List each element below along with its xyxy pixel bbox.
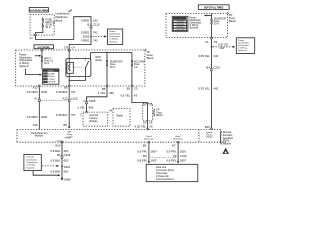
svg-text:C346: C346 [64,153,71,157]
dotted tie between DLC wires [150,157,177,159]
svg-text:30 A: 30 A [110,66,115,69]
svg-text:Schematics: Schematics [26,161,38,164]
svg-text:HOT AT ALL TIMES: HOT AT ALL TIMES [30,9,49,12]
svg-text:0.35 BLK: 0.35 BLK [56,90,68,94]
wire label 0.35 YEL 443 [198,54,218,58]
pin A1 connector circle [34,34,36,36]
svg-text:Block: Block [56,18,63,22]
wire label 0.35 BLK 767 [56,90,76,94]
svg-text:Power: Power [189,16,196,19]
connector circle at top edge (ACCY fuse feed) [41,49,43,51]
header label HOT AT ALL TIMES (top-left) [29,8,48,13]
svg-text:Systems: Systems [19,65,29,68]
svg-text:Module: Module [35,135,44,138]
solid arrow box to ground point [33,171,60,177]
svg-text:Distribution: Distribution [189,19,201,22]
fuse SUNROOF (center) [106,52,108,85]
svg-text:A9: A9 [173,154,177,158]
connector C306 pin A [83,99,96,104]
svg-text:Radio: Radio [116,114,123,117]
svg-text:0.35 BLK: 0.35 BLK [56,113,68,117]
svg-text:C306: C306 [89,99,96,103]
svg-text:A7: A7 [172,143,176,147]
wire label 0.8 PPL 1807 (second) [166,158,186,162]
wire label 5 RED 742 (second) [81,39,98,43]
svg-text:767: 767 [71,90,76,94]
svg-text:0.5 ORN: 0.5 ORN [27,90,38,94]
svg-text:Serial Data: Serial Data [173,138,183,141]
wire 0.5 ORN 2040 [38,87,40,130]
svg-text:Schematics: Schematics [238,44,250,47]
svg-text:Distribution: Distribution [109,33,121,36]
svg-text:742: 742 [93,39,98,43]
pin label B1 C9 (narrow box entry) [143,103,153,106]
svg-text:B4 YEL: B4 YEL [48,76,54,78]
svg-text:C1: C1 [205,40,209,44]
connector circle module entry [147,128,149,130]
svg-text:B: B [87,23,89,27]
svg-text:650: 650 [64,169,69,173]
wire 0.35 BLK 767 [68,87,70,126]
fuse label RADIO [134,61,145,69]
narrow I/P fuse block pass-through (dashed) [143,104,153,121]
exit circle C3 (radio fuse out) [131,85,133,87]
wire label 0.8 PPL 1807 [137,149,157,153]
svg-text:B3: B3 [127,86,131,90]
svg-text:1 YEL: 1 YEL [77,105,85,109]
svg-text:Power: Power [238,39,244,42]
relay label RAP Relay [96,56,103,62]
label I/P Fuse Block (right of big box) [145,49,154,60]
reference box: Ground Distribution Schematics [24,155,41,171]
svg-text:HOT W/ RAP: HOT W/ RAP [38,46,51,49]
svg-text:C9-B2 GRN: C9-B2 GRN [175,29,185,31]
fuse label [44,57,54,65]
connector C210 pin B4 [206,66,220,71]
reference box: Power Distribution Schematics in Wiring Systems (top middle) [108,29,123,45]
ground G400 [61,178,71,182]
I/P fuse block top-right (dashed box) [166,13,228,37]
svg-text:A7: A7 [34,96,38,100]
wire inside narrow box [147,104,149,130]
svg-text:2040: 2040 [41,115,48,119]
underhood maxifuse block (dashed box) [30,15,54,35]
svg-text:A: A [83,99,85,103]
svg-text:Communications: Communications [156,178,175,181]
instrument panel fuse block (big dashed box) [16,50,145,86]
reference arrow to fuse table [26,69,42,76]
splice S301 [61,165,70,169]
svg-text:C3: C3 [134,86,138,90]
RFA right edge [220,130,222,143]
svg-text:1807: 1807 [180,158,187,162]
RFA left separator [198,130,200,143]
svg-text:0.35 YEL: 0.35 YEL [198,54,210,58]
wire label 0.35 BLK 767 (second) [56,113,76,117]
connector pin A9 C210 [173,154,187,158]
svg-text:Systems: Systems [26,166,35,169]
svg-text:B4: B4 [143,154,147,158]
splice S202 with reference arrow [83,35,107,39]
svg-text:B14: B14 [55,143,60,147]
connector circle at C4 entry [68,49,70,51]
radio (dashed box) [109,109,130,127]
svg-text:Ground: Ground [26,156,34,159]
svg-text:Relay: Relay [96,59,103,62]
svg-text:0.8 PPL: 0.8 PPL [166,149,176,153]
reference arrow to ACCY fuse wire [35,55,42,57]
fuse label SUNROOF [110,61,123,69]
exit circle A12 [38,85,40,87]
svg-text:Power: Power [109,30,115,33]
svg-text:30 A: 30 A [45,26,50,29]
svg-text:0.5 ORN: 0.5 ORN [27,115,38,119]
svg-text:FUSES: FUSES [48,70,55,72]
wire label 5 RED 742 [81,30,98,34]
arrowhead into DLC box (left) [148,161,150,163]
svg-text:2 A: 2 A [134,66,138,69]
DLC wire left (0.8 PPL 1807) [148,142,150,162]
dotted tie C210 between wires [41,99,68,101]
DLC wire right (0.8 PPL 1807) [177,142,179,162]
svg-text:Systems: Systems [109,40,118,43]
connector circle C9 exit [211,37,213,39]
connector C115 pin B [87,23,100,28]
pin label C1 C9 [205,40,218,44]
svg-text:2040: 2040 [41,90,48,94]
svg-text:A12: A12 [63,96,68,100]
fuse ACCY (left, inside block) [41,51,43,69]
exit circle B5 (sunroof fuse out) [106,85,108,87]
svg-text:in Wiring: in Wiring [109,38,118,41]
svg-text:C9: C9 [214,40,218,44]
svg-text:A12: A12 [33,86,38,90]
antenna symbol [222,148,229,154]
svg-text:1 YEL: 1 YEL [98,91,106,95]
svg-text:43: 43 [149,125,153,129]
theft deterrent module text [31,132,48,138]
wire A1 to D5/C4 (5 RED 142 / 742) [35,17,91,50]
svg-text:C4: C4 [71,46,75,50]
svg-text:0.35 YEL: 0.35 YEL [135,125,147,129]
svg-text:10 A: 10 A [214,22,219,25]
dashed arrow box to splice [42,165,59,167]
svg-text:650: 650 [64,159,69,163]
reference text: Power Distribution Schematics (center-left, plain) [19,54,33,68]
module band bottom edge [17,141,227,143]
svg-text:443: 443 [213,54,218,58]
svg-text:C: C [80,113,82,116]
wire 0.5 YEL 43 to narrow IP box [132,87,148,104]
svg-text:D6 GRN: D6 GRN [48,82,55,84]
wire label 0.8 PPL 1807 [166,149,186,153]
right wire 0.35 YEL 443 down the page [211,39,213,128]
svg-text:C210: C210 [180,154,187,158]
label I/P Fuse Block (narrow box) [154,109,163,117]
svg-text:Schematics: Schematics [109,35,121,38]
class 2 serial data label (right) [173,136,183,141]
svg-text:HOT AT ALL TIMES: HOT AT ALL TIMES [204,6,224,9]
svg-text:C210: C210 [213,66,220,70]
connector C210 pin A7 [34,96,40,101]
reference text: Power Distribution Schematics (top-right, plain) [189,16,202,29]
wire label 0.5 ORN 2040 (second) [27,115,48,119]
svg-text:A10: A10 [33,123,38,127]
svg-text:10 A: 10 A [44,62,49,65]
reference arrow to fuse wire [204,14,211,16]
svg-text:B6: B6 [63,123,67,127]
fuse MAXIFUSE (in underhood block) [35,17,43,34]
svg-text:Serial Data: Serial Data [144,138,154,141]
exit circle B6 (coil ground side) [68,85,70,87]
svg-text:C210: C210 [71,96,78,100]
svg-text:in Wiring: in Wiring [238,47,247,50]
pin label D5 C4 [64,46,75,50]
label Remote Function Actuation (RFA) Module [221,131,234,145]
wire label 1 YEL 940 (second) [77,105,93,109]
svg-text:Distribution: Distribution [238,41,250,44]
wire label 0.8 PPL 1807 (second) [137,158,157,162]
svg-text:Module: Module [89,120,98,123]
fuse table (center) [43,69,59,84]
connector circle RFA entry [211,128,213,130]
svg-text:C2 BLU: C2 BLU [48,79,55,81]
svg-text:0.8 BLK: 0.8 BLK [50,159,60,163]
svg-text:G400: G400 [64,178,71,182]
svg-text:B4: B4 [206,66,210,70]
svg-text:B2: B2 [57,153,61,157]
svg-text:Module: Module [223,142,232,145]
svg-text:Block: Block [147,56,154,60]
reference box: Data Link Connector (DLC) [146,164,198,181]
wire label 5 RED 142 [81,19,98,23]
svg-text:Ground: Ground [64,137,70,140]
fuse label [214,17,227,25]
svg-text:in Wiring: in Wiring [26,164,35,167]
ground pin text above band bottom [57,137,71,143]
svg-text:Voltage: Voltage [206,136,212,139]
wire label 0.35 YEL 43 [135,125,153,129]
class 2 serial data label (left) [144,136,154,141]
header label HOT AT ALL TIMES (top-right, dark) [198,5,229,10]
svg-text:Schematics: Schematics [189,22,202,25]
pin label C8 C8 (narrow box exit) [143,121,153,124]
svg-text:Systems: Systems [189,27,199,30]
svg-text:940: 940 [89,105,94,109]
svg-text:0.8 BLK: 0.8 BLK [50,169,60,173]
wire label 0.8 BLK 650 (second) [50,159,68,163]
fuse SUNROOF (top right block) [211,13,213,37]
svg-text:443: 443 [220,47,225,50]
label I/P Fuse Block (right of top-right box) [227,12,236,23]
wire label 1 YEL 940 [98,91,115,95]
svg-text:D5: D5 [64,46,68,50]
fuse RADIO (center right) [131,52,133,85]
sunroof enable section text (RFA) [206,131,213,139]
svg-text:A1 RED: A1 RED [48,72,55,75]
fuse table (top-right) [172,16,188,31]
module band left edge [16,130,18,143]
header label HOT AT ALL TIMES W/RAP (center) [34,45,54,49]
svg-text:1807: 1807 [151,158,158,162]
svg-text:0.8 PPL: 0.8 PPL [137,158,147,162]
svg-text:43: 43 [134,94,138,98]
ground wire 0.8 BLK 650 [61,142,63,179]
svg-text:767: 767 [71,113,76,117]
label Underhood MaxiFuse Block [56,9,72,22]
svg-text:443: 443 [213,87,218,91]
svg-text:0.8 PPL: 0.8 PPL [166,158,176,162]
svg-text:Distribution: Distribution [26,158,38,161]
wire label 0.8 BLK 650 [50,149,68,153]
sunroof control module (dashed box) [80,111,108,126]
svg-text:S401: S401 [64,165,71,169]
svg-text:940: 940 [109,91,114,95]
wire 1 YEL 940 to sunroof module [87,87,108,112]
connector C346 pin B2 [57,153,71,158]
wire label 0.35 YEL 443 (second) [198,87,218,91]
svg-text:1807: 1807 [180,149,187,153]
fuse value label [45,19,55,30]
svg-text:Systems: Systems [238,49,247,52]
svg-text:1807: 1807 [151,149,158,153]
connector C210 pin A12 [63,96,79,101]
svg-text:B6: B6 [64,86,68,90]
svg-text:in Wiring: in Wiring [189,24,199,27]
svg-text:B15: B15 [205,125,210,129]
svg-text:A1: A1 [29,36,33,40]
relay RAP [66,51,91,85]
module band top edge [17,129,221,131]
reference box: Power Distribution Schematics (right) [236,38,254,54]
svg-text:B6: B6 [143,143,147,147]
svg-text:0.8 PPL: 0.8 PPL [137,149,147,153]
svg-text:742: 742 [93,30,98,34]
svg-text:0.5 YEL: 0.5 YEL [120,94,130,98]
RAP control section text [66,131,73,139]
svg-text:B5: B5 [102,87,106,91]
svg-text:5 RED: 5 RED [81,39,89,43]
svg-text:0.35 YEL: 0.35 YEL [198,87,210,91]
svg-text:C115: C115 [93,23,100,27]
svg-text:Block: Block [156,114,163,117]
splice S306 with arrow to reference box [211,44,236,50]
bus bar inside fuse block [91,51,132,53]
wire label 0.8 BLK 650 (third) [50,169,68,173]
svg-text:Block: Block [229,19,236,23]
arrowhead into DLC box (right) [177,161,179,163]
wire label 0.5 YEL 43 [120,94,137,98]
connector circle at module entry [68,126,70,128]
wire label 0.5 ORN 2040 [27,90,48,94]
